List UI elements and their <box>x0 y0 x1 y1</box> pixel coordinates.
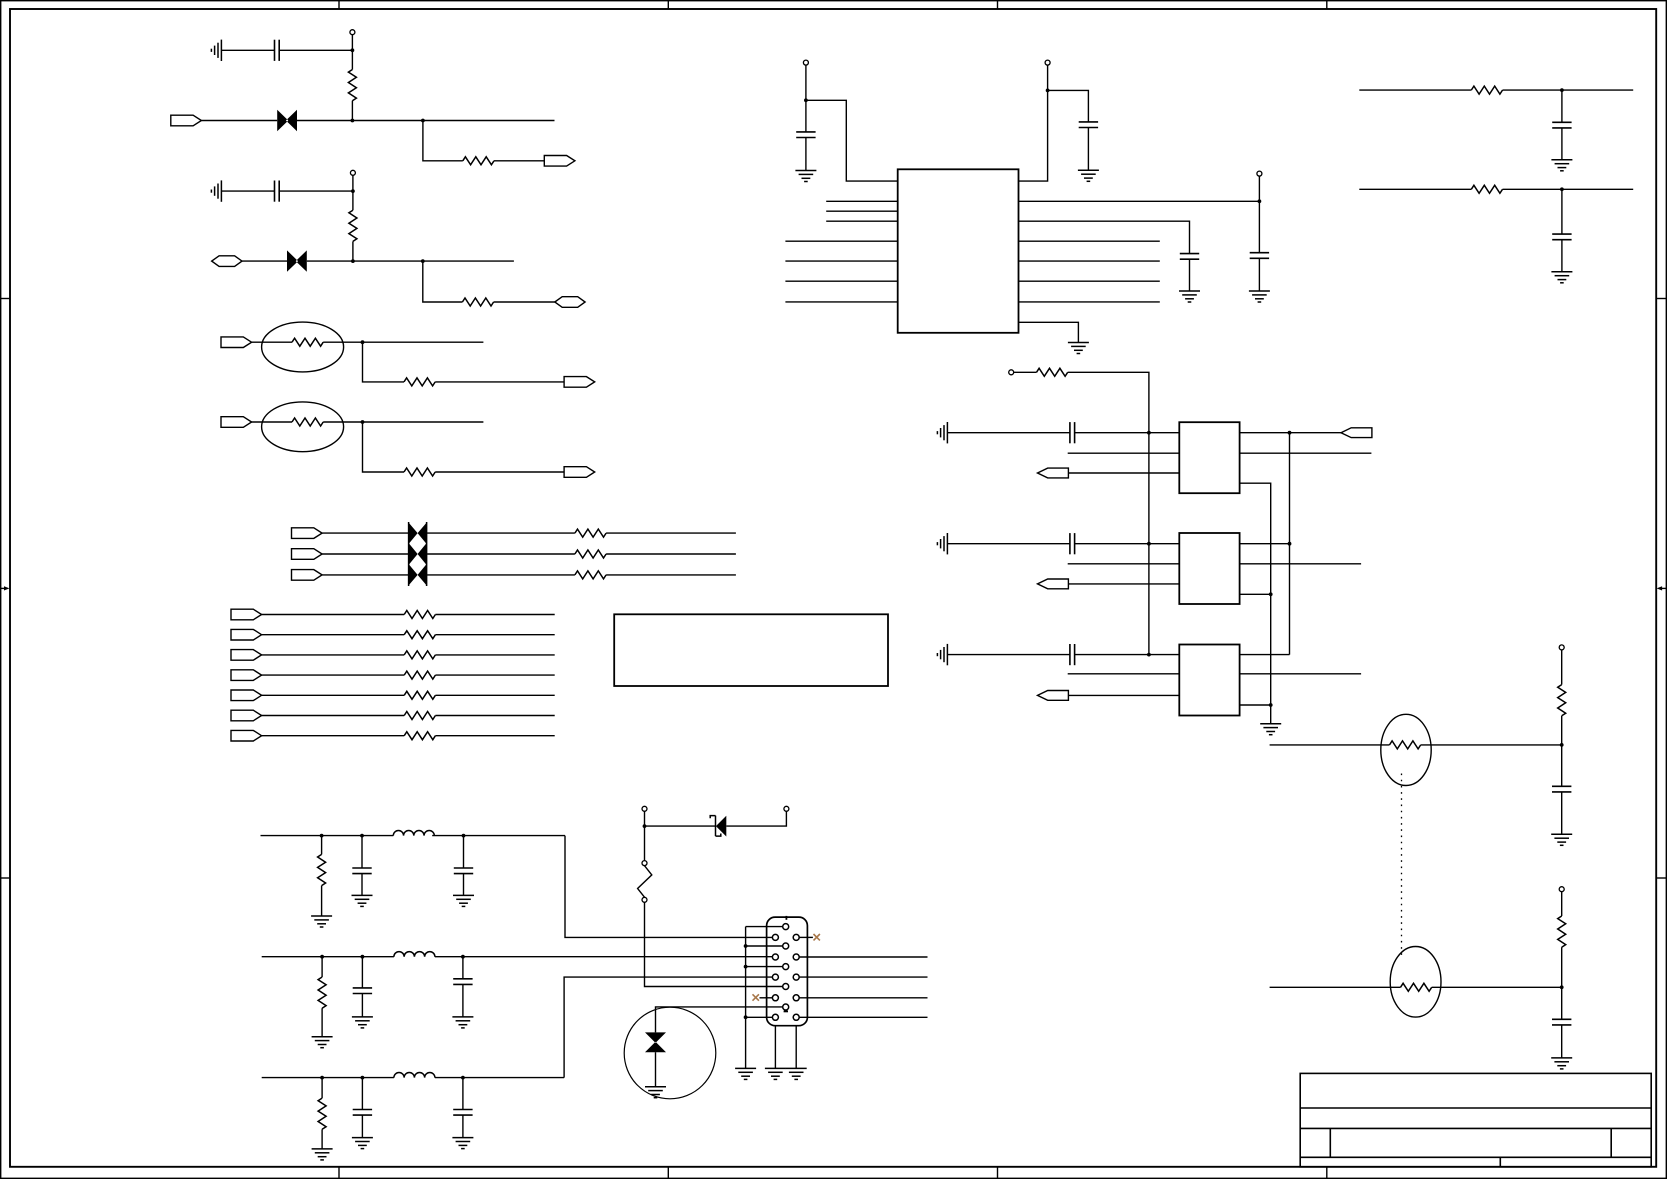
pin P10 <box>784 806 789 811</box>
thermal coupling dashed link <box>1401 774 1403 958</box>
wire R17 to end <box>1503 188 1634 190</box>
wire M1 top to connector pin A5 <box>656 1007 784 1033</box>
connector J1 pins column C <box>793 934 799 940</box>
wire C9 to block U3 pin 1 <box>1075 432 1180 434</box>
capacitor C10 <box>1070 533 1075 554</box>
wire PORT21 to block U5 pin 3 <box>1068 694 1179 696</box>
wire U3 out pin 1 to port PORT22 <box>1240 432 1341 434</box>
port PORT4 (bidirectional hex) <box>555 297 585 308</box>
wire R3 to main line <box>352 241 354 261</box>
port PORT16 <box>231 690 262 701</box>
node M2 junction <box>744 944 748 948</box>
row 3 wire <box>262 1077 564 1079</box>
wire P9 to node L1 <box>644 811 646 826</box>
wire R6 to PORT8 <box>435 471 564 473</box>
node H7 junction <box>1269 703 1273 707</box>
wire, resistor R22, wire (row 3) <box>262 654 405 656</box>
port PORT19 <box>1038 468 1069 478</box>
node K8 junction <box>361 1076 365 1080</box>
wire P5 to node E3 <box>1258 176 1260 201</box>
node H2 junction <box>1147 542 1151 546</box>
junction node B2 <box>351 259 355 263</box>
wire D1 to line end <box>297 120 555 122</box>
junction node A2 <box>351 119 355 123</box>
ground GA5 <box>937 644 947 665</box>
capacitor C11 <box>1070 644 1075 665</box>
wire pin C4 right <box>799 997 928 999</box>
zener diode D3 <box>710 816 726 837</box>
wire bus to ground G13 <box>735 1068 756 1079</box>
resistor R15 <box>321 1078 323 1099</box>
ground G18 <box>312 1037 333 1048</box>
ground G20 <box>452 1017 473 1028</box>
ground G11 <box>453 895 474 906</box>
wire R16 to end <box>1503 89 1634 91</box>
block U4 <box>1179 533 1239 604</box>
wire U4 out pin 2 (long) <box>1240 563 1362 565</box>
port PORT8 <box>564 467 595 478</box>
wire F3 to connector pin A4 <box>645 902 784 986</box>
IC left pins stubs (3 short) <box>826 200 898 202</box>
wire rail to ground G6 <box>1270 705 1272 724</box>
block U2 (empty rectangle) <box>614 614 888 686</box>
wire C4 to ground G2 <box>1087 128 1089 171</box>
node H1 junction <box>1147 431 1151 435</box>
wire C11 to block U5 pin 1 <box>1075 654 1180 656</box>
port PORT15 <box>231 670 262 681</box>
wire GA3 to capacitor C9 <box>947 432 1070 434</box>
stub pin C1 to no-connect X2 <box>799 936 813 938</box>
wire pin C3 right <box>799 976 928 978</box>
inductor L2 <box>394 952 435 957</box>
ground GA3 <box>937 422 947 443</box>
pin P3 <box>803 60 808 65</box>
wire U5 out pin 1 to vertical corner <box>1240 654 1290 656</box>
ground G12 <box>645 1087 666 1098</box>
wire U4 out pin 1 to vertical <box>1240 543 1290 545</box>
left bus wire of connector <box>745 927 747 1069</box>
wire R4 to PORT4 <box>494 301 555 303</box>
pin P5 <box>1257 171 1262 176</box>
junction node A3 <box>421 119 425 123</box>
wire node A1 to resistor R1 <box>351 50 353 69</box>
capacitor C18 <box>1552 122 1571 128</box>
ground G15 <box>786 1068 807 1079</box>
wire P8 to resistor R12 <box>1014 371 1037 373</box>
ground G2 <box>1078 170 1099 181</box>
ground G19 <box>352 1017 373 1028</box>
wire PORT10 to array <box>322 553 408 555</box>
connector J1 body (DE-15) <box>767 917 808 1026</box>
TVS diode D4 (inside motor circle) <box>645 1032 666 1052</box>
node J2 junction <box>1560 985 1564 989</box>
wire R2 to PORT2 <box>494 160 544 162</box>
capacitor C1 <box>275 40 280 61</box>
ground G22 <box>352 1138 373 1149</box>
ground G3 <box>1249 291 1270 302</box>
wire, resistor R25, wire (row 6) <box>262 715 405 717</box>
wire node L1 to zener D3 <box>645 825 716 827</box>
wire P7 to resistor R11 <box>1561 892 1563 916</box>
ground G4 <box>1179 291 1200 302</box>
port PORT13 <box>231 629 262 640</box>
ground G9 <box>311 916 332 927</box>
pin P9 <box>642 806 647 811</box>
wire pin C2 right <box>799 956 928 958</box>
resistor R6 <box>404 468 435 476</box>
wire, resistor R23, wire (row 4) <box>262 674 405 676</box>
node H5 junction <box>1288 542 1292 546</box>
wire row1 riser to connector pin B1 <box>565 836 773 938</box>
wire C8 to ground G8 <box>1561 1025 1563 1058</box>
ground rail continues <box>1270 594 1272 705</box>
capacitor C8 <box>1552 1019 1571 1025</box>
ground G14 <box>765 1068 786 1079</box>
stub bus to pin A3 <box>746 966 784 968</box>
wire array to R9 <box>427 574 575 576</box>
wire R5 to PORT6 <box>435 381 564 383</box>
capacitor C13 <box>463 836 465 868</box>
node E2 junction <box>1046 89 1050 93</box>
pin P7 <box>1559 887 1564 892</box>
wire P4 down to node E2 <box>1047 65 1049 90</box>
wire PORT19 to block U3 pin 3 <box>1068 472 1179 474</box>
wire row 2 left <box>1359 188 1471 190</box>
capacitor C9 <box>1070 422 1075 443</box>
block U5 pin 2 stub <box>1068 673 1180 675</box>
port PORT5 <box>221 337 252 348</box>
TVS diode D2 <box>287 250 307 271</box>
port PORT18 <box>231 730 262 741</box>
pin P8 <box>1009 370 1014 375</box>
wire C7 to ground G7 <box>1561 792 1563 834</box>
wire D3 to pin P10 <box>726 811 786 826</box>
wire PORT20 to block U4 pin 3 <box>1068 583 1179 585</box>
ground G6 <box>1260 724 1281 735</box>
ground G8 <box>1551 1058 1572 1069</box>
connector J1 pins column B <box>772 934 778 940</box>
junction node D1 <box>361 420 365 424</box>
pin P4 <box>1045 60 1050 65</box>
wire PORT9 to array <box>322 532 408 534</box>
no-connect X1 with stub to pin B4 <box>760 997 773 999</box>
node K2 junction <box>360 834 364 838</box>
ground GA1 (antenna-style earth) <box>211 40 221 61</box>
port PORT9 <box>292 528 323 539</box>
wire F2 to line end <box>323 421 483 423</box>
block U3 <box>1179 422 1239 493</box>
inductor L1 <box>393 830 434 835</box>
TVS diode D1 (bidirectional) <box>277 110 297 131</box>
capacitor C19 <box>1552 234 1571 240</box>
wire RT2 to node J2 <box>1432 986 1562 988</box>
wire F1 to line end <box>323 341 483 343</box>
port PORT6 <box>564 377 595 388</box>
port PORT17 <box>231 710 262 721</box>
resistor R4 <box>462 298 493 306</box>
node E3 junction <box>1258 199 1262 203</box>
wire, resistor R24, wire (row 5) <box>262 694 405 696</box>
wire P3 down to node E1 <box>805 65 807 100</box>
wire C1 to node A1 <box>279 49 352 51</box>
wire C5 to ground G3 <box>1258 258 1260 291</box>
wire IC right pin 2 to capacitor C6 <box>1019 221 1190 253</box>
net vertical H4 to U5 row <box>1289 433 1291 655</box>
wire D4 to ground G12 <box>655 1052 657 1087</box>
capacitor C6 <box>1180 254 1199 260</box>
node K4 junction <box>320 955 324 959</box>
wire node E3 to capacitor C5 <box>1258 201 1260 252</box>
wire, resistor R26, wire (row 7) <box>262 735 405 737</box>
fuse F3 (PTC with terminals) <box>638 861 652 903</box>
motor M1 (circle) <box>624 1007 716 1099</box>
wire R9 end <box>606 574 736 576</box>
port PORT10 <box>292 549 323 560</box>
resistor R13 <box>321 836 323 855</box>
pin P6 <box>1559 645 1564 650</box>
node K7 junction <box>320 1076 324 1080</box>
wire PORT3 to TVS D2 <box>242 260 287 262</box>
port PORT11 <box>292 570 323 581</box>
wire C19 to ground G17 <box>1561 240 1563 272</box>
wire branch down <box>363 342 405 382</box>
wire GA5 to capacitor C11 <box>947 654 1070 656</box>
node M3 junction <box>744 965 748 969</box>
capacitor C4 <box>1079 122 1098 128</box>
fuse F1 (resistor in ellipse) <box>262 322 344 372</box>
resistor R1 <box>348 70 356 101</box>
thermistor RT2 (resistor in ellipse) <box>1390 947 1441 1018</box>
wire node E2 to capacitor C4 <box>1048 90 1089 122</box>
wire C6 to ground G4 <box>1189 259 1191 291</box>
wire, resistor R21, wire (row 2) <box>262 634 405 636</box>
wire pin C5 right <box>799 1016 928 1018</box>
wire row 1 left <box>1359 89 1471 91</box>
wire R10 to node J1 <box>1561 716 1563 745</box>
capacitor C5 <box>1250 253 1269 259</box>
wire node E1 to IC pin 1 <box>806 100 898 181</box>
ground G10 <box>352 895 373 906</box>
node H3 junction <box>1147 653 1151 657</box>
IC left pins (4 long) <box>785 240 897 242</box>
wire R12 to bus vertical <box>1068 372 1149 654</box>
node A1 junction <box>351 48 355 52</box>
ground G17 <box>1551 272 1572 283</box>
resistor R5 <box>404 378 435 386</box>
wire node F1 to capacitor C18 <box>1561 90 1563 122</box>
wire branch down <box>363 422 405 472</box>
wire U5 out pin 2 (long) <box>1240 673 1362 675</box>
capacitor C2 <box>275 181 280 202</box>
port PORT20 <box>1038 579 1069 589</box>
resistor R17 <box>1471 185 1502 193</box>
connector shield leg 2 <box>795 1026 797 1069</box>
wire U3 out pin 2 (long) <box>1240 452 1372 454</box>
resistor R9 <box>575 571 606 579</box>
wire U4 bottom pin junction <box>1240 593 1271 595</box>
wire R11 to node J2 <box>1561 947 1563 987</box>
wire row 1 left of RT1 <box>1270 744 1390 746</box>
block U5 <box>1179 645 1239 716</box>
ground G1 <box>795 171 816 182</box>
wire C3 to ground G1 <box>805 138 807 171</box>
wire IC right pin to node E3 <box>1019 200 1260 202</box>
block U4 pin 2 stub <box>1068 563 1180 565</box>
wire GA1 to C1 <box>221 49 274 51</box>
wire node F2 to capacitor C19 <box>1561 189 1563 234</box>
wire array to R8 <box>427 553 575 555</box>
row 1 wire <box>261 835 566 837</box>
capacitor C16 <box>361 1078 363 1110</box>
node B1 junction <box>351 189 355 193</box>
wire node E1 to capacitor C3 <box>805 100 807 132</box>
junction node C1 <box>361 340 365 344</box>
ground GA4 <box>937 533 947 554</box>
wire PORT5 to fuse F1 <box>252 341 292 343</box>
IC U1 <box>898 169 1019 332</box>
resistor R7 <box>575 529 606 537</box>
capacitor C3 <box>796 132 815 138</box>
port PORT2 (output) <box>544 156 575 167</box>
node H4 junction <box>1288 431 1292 435</box>
port PORT3 (bidirectional hex) <box>212 256 242 267</box>
wire node J1 to capacitor C7 <box>1561 745 1563 786</box>
wire node J2 to capacitor C8 <box>1561 987 1563 1019</box>
connector shield leg 1 <box>774 1026 776 1069</box>
TVS array D5 (three stacked bidirectional TVS) <box>408 522 427 586</box>
port PORT21 <box>1038 691 1069 701</box>
pin P1 <box>351 35 353 51</box>
wire branch down <box>423 261 463 302</box>
resistor R10 <box>1558 685 1566 716</box>
resistor R16 <box>1471 86 1502 94</box>
port PORT7 <box>221 417 252 428</box>
IC right pins (4 open) <box>1019 240 1160 242</box>
ground G23 <box>452 1138 473 1149</box>
junction node B3 <box>421 259 425 263</box>
node K9 junction <box>461 1076 465 1080</box>
capacitor C17 <box>462 1078 464 1110</box>
capacitor C14 <box>361 957 363 988</box>
stub bus to pin A2 <box>746 945 784 947</box>
wire node B1 to resistor R3 <box>352 191 354 210</box>
ground G7 <box>1551 834 1572 845</box>
node M4 junction <box>744 1015 748 1019</box>
resistor R2 <box>463 157 494 165</box>
wire D2 to line end <box>307 260 514 262</box>
wire PORT11 to array <box>322 574 408 576</box>
wire node E2 down to IC right pin 1 <box>1019 90 1048 181</box>
wire row3 riser to connector pin B3 <box>564 977 773 1078</box>
wire C10 to block U4 pin 1 <box>1075 543 1180 545</box>
wire C18 to ground G16 <box>1561 128 1563 160</box>
ground G16 <box>1551 160 1572 171</box>
capacitor C12 <box>361 836 363 868</box>
thermistor RT1 (resistor in ellipse) <box>1381 714 1431 785</box>
resistor R3 <box>349 210 357 241</box>
resistor R8 <box>575 550 606 558</box>
wire R8 end <box>606 553 736 555</box>
port PORT1 (input) <box>171 115 202 126</box>
wire R1 to main line <box>351 101 353 121</box>
node K3 junction <box>462 834 466 838</box>
node J1 junction <box>1560 743 1564 747</box>
ground G21 <box>312 1149 333 1160</box>
wire row 2 left of RT2 <box>1270 986 1401 988</box>
wire RT1 to node J1 <box>1421 744 1562 746</box>
wire U5 bottom pin junction <box>1240 704 1271 706</box>
ground G5 <box>1068 343 1089 354</box>
wire GA2 to C2 <box>221 190 274 192</box>
resistor R11 <box>1558 916 1566 947</box>
wire node L1 down to fuse F3 <box>644 826 646 861</box>
resistor R12 <box>1037 368 1068 376</box>
wire, resistor R20, wire (row 1) <box>262 614 405 616</box>
node E1 junction <box>804 98 808 102</box>
capacitor C15 <box>462 957 464 979</box>
inductor L3 <box>394 1072 435 1077</box>
pin P2 <box>352 175 354 191</box>
ground GA2 <box>211 180 221 201</box>
node K5 junction <box>361 955 365 959</box>
fuse F2 (resistor in ellipse) <box>262 402 344 452</box>
wire array to R7 <box>427 532 575 534</box>
wire U3 bottom pin to ground rail <box>1240 483 1271 594</box>
wire C2 to node B1 <box>279 190 353 192</box>
node K1 junction <box>320 834 324 838</box>
port PORT12 <box>231 609 262 620</box>
stub bus to pin A1 <box>746 926 784 928</box>
wire PORT7 to fuse F2 <box>252 421 292 423</box>
node F1 junction <box>1560 88 1564 92</box>
row 2 wire <box>262 956 773 958</box>
wire P6 to resistor R10 <box>1561 650 1563 685</box>
wire branch down <box>423 121 463 161</box>
port PORT22 (left pointing) <box>1341 428 1372 438</box>
node L1 junction <box>643 824 647 828</box>
node F2 junction <box>1560 187 1564 191</box>
wire IC bottom-right pin to ground G5 <box>1019 322 1079 342</box>
connector J1 pins column A <box>783 924 789 930</box>
port PORT14 <box>231 650 262 661</box>
wire GA4 to capacitor C10 <box>947 543 1070 545</box>
node K6 junction <box>461 955 465 959</box>
resistor R14 <box>321 957 323 977</box>
capacitor C7 <box>1552 786 1571 792</box>
wire R7 end <box>606 532 736 534</box>
wire PORT1 to TVS D1 <box>201 120 277 122</box>
node H6 junction <box>1269 592 1273 596</box>
title block <box>1300 1073 1651 1166</box>
stub bus to pin B5 <box>746 1016 773 1018</box>
block U3 pin 2 stub <box>1068 452 1180 454</box>
